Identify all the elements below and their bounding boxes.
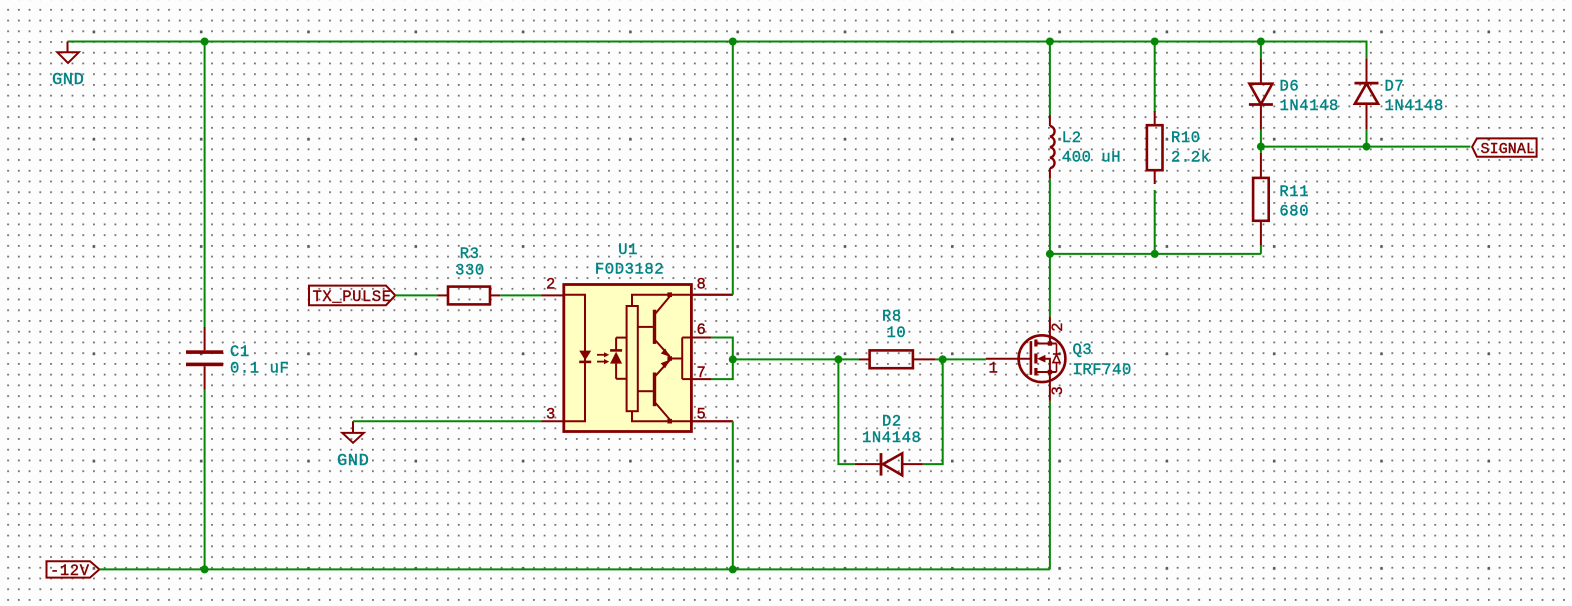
svg-text:8: 8 bbox=[697, 276, 707, 294]
svg-text:L2: L2 bbox=[1062, 129, 1082, 147]
junction signal row / D6-R11 bbox=[1257, 143, 1265, 151]
capacitor C1 bbox=[186, 327, 223, 390]
resistor R10 bbox=[1147, 111, 1211, 184]
wire Q3 drain up bbox=[1049, 254, 1051, 317]
junction signal row / D7 bbox=[1363, 143, 1371, 151]
wire R10 bottom bbox=[1154, 190, 1156, 254]
U1 pin 2 bbox=[542, 276, 564, 296]
U1 output transistor upper bbox=[638, 297, 670, 357]
wire L2 bottom bbox=[1049, 179, 1051, 254]
wire D2 right branch bbox=[923, 359, 943, 464]
wire Q3 source down bbox=[1049, 401, 1051, 570]
wire U1 pin8 to top rail bbox=[732, 42, 734, 295]
junction bottom rail / U1 bbox=[729, 565, 737, 573]
resistor R3 bbox=[437, 245, 500, 305]
U1 pin 7 bbox=[691, 364, 711, 382]
U1 pin 3 bbox=[542, 406, 564, 424]
svg-text:IRF740: IRF740 bbox=[1073, 361, 1132, 379]
wire R10 branch top bbox=[1154, 42, 1156, 113]
wire R11 top bbox=[1260, 147, 1262, 153]
svg-text:680: 680 bbox=[1279, 203, 1309, 221]
wire R8 left bbox=[838, 358, 859, 360]
optocoupler U1 FOD3182 body bbox=[564, 241, 692, 432]
junction R8 left bbox=[834, 355, 842, 363]
junction bottom rail / C1 bbox=[201, 565, 209, 573]
wire R11 bottom bbox=[1260, 246, 1262, 254]
U1 internal photodiode bbox=[610, 338, 627, 379]
svg-text:FOD3182: FOD3182 bbox=[595, 261, 664, 279]
svg-text:R8: R8 bbox=[882, 308, 902, 326]
junction U1 output bbox=[729, 355, 737, 363]
global label TX_PULSE bbox=[309, 286, 395, 306]
global label -12V bbox=[47, 561, 100, 580]
svg-text:330: 330 bbox=[455, 262, 485, 280]
wire D6 bottom bbox=[1260, 130, 1262, 147]
wire D2 left branch bbox=[838, 359, 854, 464]
svg-text:1N4148: 1N4148 bbox=[862, 429, 921, 447]
U1 coupling arrows bbox=[597, 352, 609, 364]
wire C1 branch vertical bbox=[204, 42, 206, 328]
wire R8 right bbox=[935, 358, 943, 360]
svg-text:Q3: Q3 bbox=[1073, 341, 1093, 359]
wire D6 branch top bbox=[1260, 42, 1262, 59]
wire U1 pins 6-7 tie bbox=[711, 338, 733, 380]
svg-text:D7: D7 bbox=[1385, 78, 1405, 96]
diode D2 bbox=[855, 413, 923, 476]
wire C1 to bottom rail bbox=[204, 390, 206, 570]
svg-text:TX_PULSE: TX_PULSE bbox=[313, 288, 392, 306]
svg-text:D6: D6 bbox=[1280, 78, 1300, 96]
diode D7 bbox=[1355, 58, 1444, 129]
svg-text:7: 7 bbox=[697, 364, 707, 382]
inductor L2 bbox=[1050, 115, 1121, 179]
svg-text:R3: R3 bbox=[460, 245, 480, 263]
svg-text:1: 1 bbox=[989, 360, 999, 378]
U1 internal output node bbox=[667, 292, 691, 423]
wire R8 to Q3 gate bbox=[943, 358, 986, 360]
svg-text:3: 3 bbox=[546, 406, 556, 424]
U1 internal driver rectangle bbox=[627, 306, 638, 411]
junction R8 right bbox=[939, 355, 947, 363]
svg-text:2: 2 bbox=[546, 276, 556, 294]
wire bottom rail bbox=[99, 568, 1050, 570]
svg-text:6: 6 bbox=[697, 321, 707, 339]
junction mid rail / Q3 bbox=[1046, 250, 1054, 258]
junction top rail / U1 bbox=[729, 38, 737, 46]
svg-text:1N4148: 1N4148 bbox=[1385, 97, 1444, 115]
svg-text:10: 10 bbox=[887, 324, 907, 342]
svg-text:2: 2 bbox=[1049, 322, 1067, 332]
svg-text:3: 3 bbox=[1049, 386, 1067, 396]
ground symbol top-left bbox=[57, 42, 79, 64]
U1 internal bottom rail bbox=[632, 411, 733, 421]
svg-text:400 uH: 400 uH bbox=[1062, 149, 1121, 167]
U1 pin 5 bbox=[691, 406, 732, 424]
wire D7 bottom bbox=[1366, 129, 1368, 147]
svg-text:GND: GND bbox=[52, 71, 84, 90]
U1 pin 6 bbox=[691, 321, 711, 339]
U1 internal top rail bbox=[632, 295, 733, 306]
wire top rail GND bbox=[68, 41, 1367, 43]
svg-text:2.2k: 2.2k bbox=[1171, 149, 1211, 167]
wire L2 branch top bbox=[1049, 42, 1051, 116]
junction top rail / L2 bbox=[1046, 38, 1054, 46]
junction top rail / D6 bbox=[1257, 38, 1265, 46]
svg-text:0.1 uF: 0.1 uF bbox=[230, 360, 289, 378]
U1 internal LED bbox=[579, 351, 591, 362]
svg-text:1N4148: 1N4148 bbox=[1280, 97, 1339, 115]
U1 output transistor lower bbox=[638, 360, 670, 420]
junction top rail / R10 bbox=[1151, 38, 1159, 46]
wire D7 branch top bbox=[1261, 42, 1367, 59]
svg-text:-12V: -12V bbox=[50, 562, 90, 580]
svg-text:U1: U1 bbox=[618, 241, 638, 259]
wire U1 pin3 to GND bbox=[353, 420, 542, 422]
U1 pin 8 bbox=[691, 276, 732, 295]
wire U1 output to R8 bbox=[733, 358, 839, 360]
junction top rail / C1 bbox=[201, 38, 209, 46]
diode D6 bbox=[1249, 59, 1339, 130]
junction mid rail / R10 bbox=[1151, 250, 1159, 258]
svg-text:R11: R11 bbox=[1279, 183, 1309, 201]
resistor R11 bbox=[1253, 153, 1309, 246]
wire U1 pin5 to bottom rail bbox=[732, 421, 734, 569]
transistor Q3 bbox=[986, 317, 1132, 401]
resistor R8 bbox=[859, 308, 935, 369]
wire signal row bbox=[1261, 146, 1470, 148]
wire R3 to U1 pin 2 bbox=[500, 294, 541, 296]
global label SIGNAL bbox=[1472, 138, 1537, 157]
svg-text:R10: R10 bbox=[1171, 129, 1201, 147]
svg-text:C1: C1 bbox=[230, 343, 250, 361]
wire TX_PULSE to R3 bbox=[395, 294, 437, 296]
U1 internal LED branch bbox=[564, 295, 585, 422]
svg-text:D2: D2 bbox=[882, 413, 902, 431]
svg-text:GND: GND bbox=[337, 452, 369, 471]
wire mid rail bbox=[1050, 253, 1261, 255]
svg-text:SIGNAL: SIGNAL bbox=[1481, 141, 1536, 158]
ground symbol near U1 pin 3 bbox=[342, 421, 364, 443]
